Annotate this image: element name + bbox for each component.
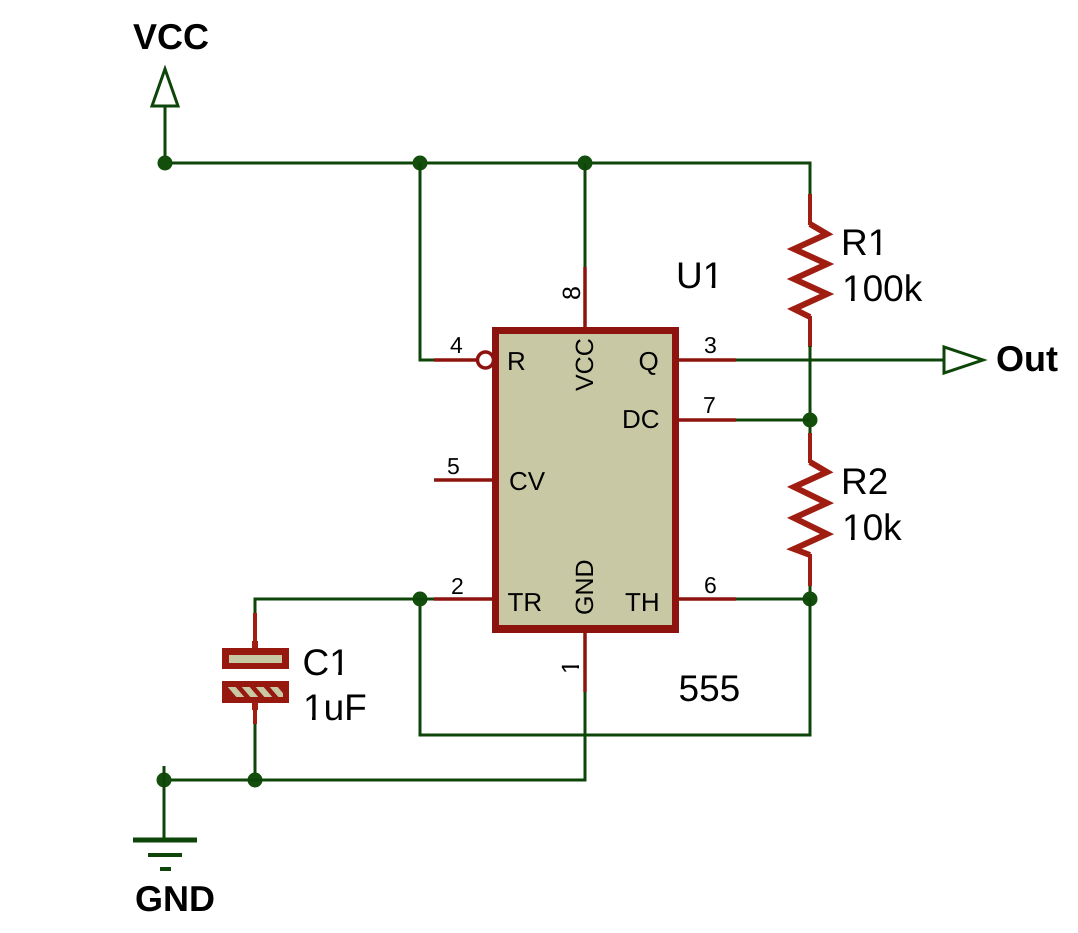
svg-text:VCC: VCC xyxy=(571,338,599,391)
pin 7 DC stub xyxy=(679,418,736,422)
node ground rail at GND terminal xyxy=(157,773,172,788)
output terminal arrow xyxy=(944,347,983,373)
svg-text:GND: GND xyxy=(571,559,599,615)
svg-text:CV: CV xyxy=(509,466,546,496)
svg-text:R: R xyxy=(507,346,526,376)
svg-text:7: 7 xyxy=(703,392,716,418)
wire top VCC rail xyxy=(165,163,810,194)
ground xyxy=(133,766,197,869)
wire pin 6 to TH node xyxy=(736,598,810,601)
svg-text:Q: Q xyxy=(639,346,659,376)
node VCC rail to pin 4 xyxy=(413,156,428,171)
svg-text:1: 1 xyxy=(557,660,585,674)
svg-text:TR: TR xyxy=(508,587,543,617)
svg-text:DC: DC xyxy=(622,404,660,434)
node VCC rail to pin 8 xyxy=(578,156,593,171)
wire R2 to TH node xyxy=(809,586,812,599)
wire C1 bottom to ground rail xyxy=(254,724,257,780)
svg-text:U1: U1 xyxy=(676,255,723,296)
inversion bubble pin 4 xyxy=(478,352,494,368)
svg-text:TH: TH xyxy=(625,587,660,617)
resistor R1 xyxy=(794,194,827,347)
svg-text:R1: R1 xyxy=(841,222,888,263)
svg-text:VCC: VCC xyxy=(133,16,209,57)
svg-text:8: 8 xyxy=(558,286,586,300)
svg-text:3: 3 xyxy=(704,332,717,358)
wire pin 7 to DC node xyxy=(736,419,810,422)
pin 2 TR stub xyxy=(434,597,492,601)
svg-text:6: 6 xyxy=(704,572,717,598)
pin 8 VCC stub xyxy=(583,267,587,331)
node DC / R1 / R2 xyxy=(803,413,818,428)
wire to pin 4 xyxy=(420,163,434,360)
pin 5 CV stub xyxy=(434,478,492,482)
svg-text:555: 555 xyxy=(679,668,741,709)
pin 4 R stub xyxy=(434,358,477,362)
svg-text:4: 4 xyxy=(450,332,463,358)
power terminal VCC xyxy=(152,69,178,163)
svg-text:R2: R2 xyxy=(841,461,888,502)
wire ground rail xyxy=(164,692,585,780)
node C1 / ground rail xyxy=(248,773,263,788)
svg-text:2: 2 xyxy=(451,573,464,599)
svg-text:Out: Out xyxy=(996,338,1058,379)
wire to pin 8 xyxy=(584,163,587,267)
op-amp U1 555 timer body xyxy=(492,327,679,633)
node VCC rail at terminal xyxy=(158,156,173,171)
svg-text:C1: C1 xyxy=(303,642,350,683)
node TH / R2 xyxy=(803,592,818,607)
svg-text:5: 5 xyxy=(447,453,460,479)
svg-text:10k: 10k xyxy=(842,507,902,548)
pin 6 TH stub xyxy=(679,597,736,601)
resistor R2 xyxy=(794,433,827,586)
pin 3 Q stub xyxy=(679,358,736,362)
wire TR to C1 top xyxy=(255,599,434,614)
svg-text:1uF: 1uF xyxy=(303,687,367,728)
svg-text:GND: GND xyxy=(135,878,215,919)
capacitor C1 xyxy=(222,613,289,724)
wire R1 to DC node xyxy=(809,346,812,433)
pin 1 GND stub xyxy=(583,633,587,692)
wire pin 3 to output xyxy=(736,359,944,362)
node TR junction xyxy=(413,592,428,607)
wire TH node to TR node (bottom link) xyxy=(420,599,810,735)
svg-text:100k: 100k xyxy=(842,268,923,309)
